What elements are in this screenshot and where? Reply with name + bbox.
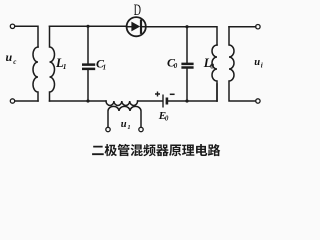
label C0 xyxy=(167,55,178,70)
battery minus sign xyxy=(170,93,175,95)
capacitor C1 xyxy=(82,26,95,101)
svg-text:0: 0 xyxy=(165,114,169,122)
caption char 混 xyxy=(131,144,143,156)
svg-text:u: u xyxy=(6,50,13,64)
terminal top-left input xyxy=(10,24,14,28)
inductor L0 secondary winding xyxy=(229,27,256,101)
terminal oscillator right xyxy=(139,127,143,131)
caption char 二 xyxy=(92,146,104,155)
svg-text:1: 1 xyxy=(63,62,67,71)
inductor oscillator secondary winding xyxy=(108,106,141,127)
svg-text:0: 0 xyxy=(210,61,214,70)
caption char 管 xyxy=(118,144,130,156)
svg-text:i: i xyxy=(261,62,263,70)
wire battery to L0 primary bottom xyxy=(168,100,217,102)
label L0 xyxy=(203,56,214,71)
diode D circle xyxy=(127,17,146,36)
caption char 电 xyxy=(196,144,207,156)
caption char 路 xyxy=(208,144,220,156)
inductor oscillator coupling primary on rail xyxy=(106,101,138,106)
svg-text:1: 1 xyxy=(127,124,130,131)
caption char 原 xyxy=(169,145,181,157)
label C1 xyxy=(96,56,106,71)
node junction C0 bottom xyxy=(185,99,188,102)
diode D triangle xyxy=(131,22,140,32)
terminal bottom-right output xyxy=(256,99,260,103)
svg-text:D: D xyxy=(134,1,141,19)
node junction C1 top xyxy=(86,25,89,28)
node junction C0 top xyxy=(185,25,188,28)
svg-text:1: 1 xyxy=(103,63,107,71)
terminal bottom-left input xyxy=(10,99,14,103)
wire L0 primary bottom corner xyxy=(216,84,218,101)
label ui xyxy=(254,57,262,70)
caption char 极 xyxy=(105,144,117,156)
terminal top-right output xyxy=(256,25,260,29)
label L1 xyxy=(55,56,67,71)
diode D cathode bar xyxy=(140,21,142,33)
svg-text:u: u xyxy=(254,57,260,68)
battery E0 negative plate xyxy=(166,98,169,105)
wire top rail L0 secondary to terminal xyxy=(229,26,256,28)
diode D anode stub xyxy=(127,26,132,28)
diode D cathode stub xyxy=(142,26,146,28)
label u1 oscillator voltage xyxy=(121,119,131,131)
svg-text:u: u xyxy=(121,119,127,130)
battery E0 positive plate xyxy=(162,95,164,108)
label E0 xyxy=(158,110,169,123)
caption char 器 xyxy=(156,144,169,156)
wire top-left terminal to L1 primary top xyxy=(15,26,38,47)
inductor L1 primary winding xyxy=(33,47,38,101)
battery plus sign xyxy=(155,92,160,97)
terminal oscillator left xyxy=(106,127,110,131)
caption char 频 xyxy=(143,144,155,156)
label D xyxy=(134,1,141,19)
capacitor C0 xyxy=(181,27,193,101)
inductor L0 primary winding xyxy=(212,45,217,101)
label uc signal voltage xyxy=(6,50,17,66)
svg-text:c: c xyxy=(13,58,16,66)
wire bottom-left terminal to L1 primary bottom xyxy=(15,100,38,102)
inductor L1 secondary winding xyxy=(50,26,55,101)
wire bottom rail L1 to oscillator coupling coil xyxy=(50,100,107,102)
wire top rail L1 to diode xyxy=(50,25,127,27)
svg-text:0: 0 xyxy=(174,62,178,70)
wire coupling coil to battery xyxy=(138,100,163,102)
node junction C1 bottom xyxy=(86,99,89,102)
wire top rail diode to L0 xyxy=(146,27,217,45)
caption char 理 xyxy=(182,145,194,156)
